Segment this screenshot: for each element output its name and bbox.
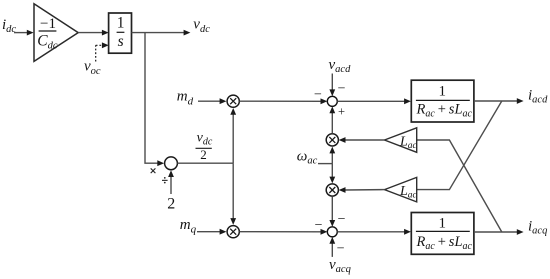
wire block q to i_acq output [474,229,524,235]
wire block d to i_acd output [474,98,524,104]
svg-text:−1: −1 [40,16,56,32]
transfer function block q [411,213,474,255]
svg-text:2: 2 [167,196,175,213]
wire v_acq into sum q [329,237,335,257]
label x (multiply sign) [151,168,156,173]
wire cross-coupling from i_acq up to upper L_ac [417,140,502,232]
wire gain to integrator [78,30,109,36]
wire constant 2 into divider [168,170,174,194]
wire m_q input [197,229,226,235]
gain block -1/Cdc [34,4,78,62]
transfer function block d [411,80,474,122]
wire i_dc input [14,30,34,36]
svg-text:1: 1 [439,83,447,99]
wire L_ac upper to multiplier [339,137,385,143]
svg-text:−: − [314,88,322,103]
divider junction circle [165,157,178,170]
wire divider output to tee [177,162,233,164]
wire sum d to transfer block d [337,98,411,104]
gain L_ac upper triangle [385,128,418,153]
multiplier m_q [227,226,239,238]
label v_dc/2 fraction [196,131,213,163]
svg-text:2: 2 [200,147,207,162]
wire v_dc branch down to divider [145,33,164,167]
multiplier omega q [326,184,338,196]
wire omega to multiplier q (down) [329,164,335,184]
wire m_d product to summing junction d [240,98,328,104]
svg-text:s: s [118,33,124,50]
wire cross-coupling from i_acd down to lower L_ac [417,101,502,190]
svg-text:1: 1 [439,215,447,231]
multiplier m_d [227,95,239,107]
wire vdc/2 down to multiplier m_q [230,163,236,225]
summing junction d [327,96,337,106]
wire multiplier omega d up to sum d [329,106,335,133]
v_oc dashed wire [96,42,109,61]
gain L_ac lower triangle [385,177,418,202]
integrator block 1/s [109,13,132,53]
wire m_d input [198,98,226,104]
summing junction q [327,227,337,237]
svg-text:+: + [338,104,345,118]
multiplier omega d [326,134,338,146]
wire omega to multiplier d (up) [329,147,335,164]
wire integrator to v_dc output [132,30,191,36]
wire omega_ac tee [318,163,332,165]
label divide sign [162,177,168,183]
wire vdc/2 up to multiplier m_d [230,108,236,163]
svg-text:−: − [338,212,346,227]
wire v_acd into sum d [329,74,335,97]
svg-text:−: − [315,218,323,233]
wire m_q product to summing junction q [240,229,328,235]
wire sum q to transfer block q [337,229,411,235]
wire L_ac lower to multiplier [339,187,385,193]
svg-text:−: − [337,242,345,257]
wire multiplier omega q down to sum q [329,196,335,227]
svg-text:1: 1 [117,15,125,32]
svg-text:−: − [338,82,346,97]
